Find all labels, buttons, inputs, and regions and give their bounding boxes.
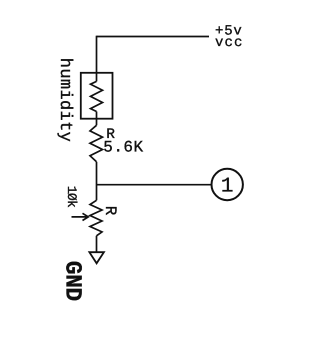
svg-text:GND: GND	[59, 261, 85, 301]
potentiometer wiper arrow	[72, 213, 89, 220]
svg-text:1Øk: 1Øk	[64, 186, 79, 208]
wire between humidity box and R 5.6K	[96, 112, 98, 126]
wire from potentiometer to ground	[96, 236, 98, 252]
potentiometer 10k zigzag	[90, 200, 102, 236]
resistor R 5.6K zigzag	[90, 125, 103, 162]
svg-text:1: 1	[221, 176, 234, 199]
svg-text:vcc: vcc	[215, 35, 244, 51]
wire from R 5.6K down to potentiometer	[96, 162, 98, 201]
ground triangle	[89, 252, 104, 263]
wire top horizontal to +5v	[97, 36, 210, 38]
svg-text:R: R	[101, 206, 119, 216]
terminal circle 1	[212, 169, 243, 200]
humidity sensor box	[81, 73, 113, 119]
svg-text:humidity: humidity	[55, 58, 74, 142]
svg-text:5.6K: 5.6K	[103, 139, 143, 157]
wire junction to terminal 1	[97, 184, 212, 186]
wire vertical from corner into humidity box	[96, 36, 98, 82]
resistor zigzag inside humidity box	[91, 81, 103, 111]
